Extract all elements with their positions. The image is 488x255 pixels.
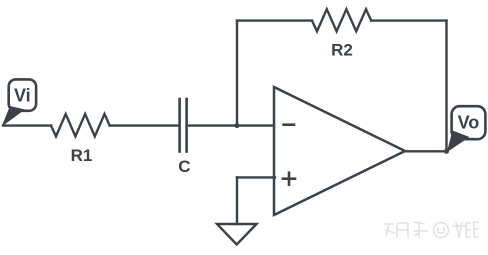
op-amp minus sign [284,123,294,126]
wire feedback top left to R2 [237,19,312,21]
wire node A up to feedback [236,21,238,126]
wire R2 to right corner [371,19,446,21]
svg-text:Vo: Vo [458,113,480,133]
terminal Vo tail [447,131,470,153]
wire op-amp output to node B [405,150,447,152]
capacitor C plate left [178,99,181,152]
wire capacitor to op-amp inverting input [188,124,274,126]
watermark 知乎 @艾能徽 [384,221,479,238]
capacitor C plate right [185,99,188,152]
node A junction dot [235,124,239,128]
wire ground stem [236,177,238,224]
terminal Vi tail [2,106,26,127]
terminal Vi box [9,79,36,110]
ground symbol [217,224,257,245]
wire right corner down to output node [445,21,447,152]
svg-text:C: C [178,157,190,176]
svg-text:Vi: Vi [14,86,31,106]
wire input from Vi tail to R1 [3,124,51,126]
wire non-inverting input [237,176,275,178]
op-amp U1 triangle [274,87,405,215]
terminal Vo box [452,106,486,139]
op-amp plus sign [283,173,295,185]
resistor R2 [312,9,371,31]
svg-text:R2: R2 [331,41,353,60]
wire R1 to capacitor [110,124,179,126]
node B output junction dot [444,149,448,153]
svg-text:R1: R1 [71,146,93,165]
resistor R1 [51,114,110,136]
